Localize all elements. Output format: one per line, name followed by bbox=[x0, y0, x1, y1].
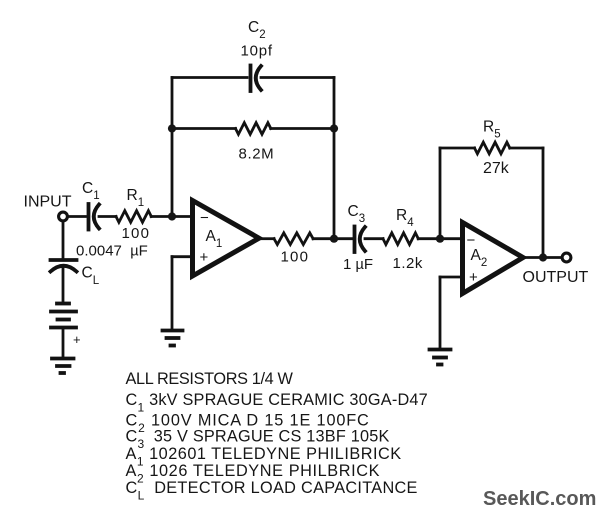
capacitor C2 bbox=[251, 66, 262, 92]
svg-text:+: + bbox=[469, 269, 478, 286]
svg-text:R1: R1 bbox=[127, 187, 145, 209]
op-amp A2 bbox=[463, 223, 524, 294]
resistor R4 bbox=[383, 233, 418, 245]
capacitor C1 bbox=[89, 204, 100, 230]
wire C1 to R1 bbox=[99, 215, 116, 218]
node A1 output bbox=[330, 235, 338, 243]
wire feedback left vertical bbox=[171, 78, 174, 217]
op-amp A1 bbox=[193, 201, 260, 277]
svg-text:C3: C3 bbox=[348, 203, 366, 225]
terminal INPUT bbox=[59, 212, 68, 221]
wire R5 row right bbox=[510, 147, 543, 150]
wire R5 feedback right vertical bbox=[542, 148, 545, 258]
svg-text:27k: 27k bbox=[483, 160, 510, 177]
svg-text:100: 100 bbox=[281, 249, 310, 266]
node A2 minus bbox=[436, 235, 444, 243]
wire C2 to top right corner bbox=[261, 76, 334, 79]
svg-text:1 µF: 1 µF bbox=[343, 256, 373, 273]
resistor R1 bbox=[116, 211, 151, 223]
svg-text:−: − bbox=[200, 210, 209, 227]
node input junction bbox=[168, 212, 176, 220]
resistor 8.2M bbox=[236, 123, 271, 135]
svg-text:R4: R4 bbox=[396, 207, 414, 229]
svg-text:INPUT: INPUT bbox=[24, 194, 72, 211]
wire A2 plus to ground bbox=[439, 277, 442, 348]
wire 8.2M row right bbox=[271, 127, 334, 130]
wire R4 to A2 minus input bbox=[418, 237, 461, 240]
wire C3 to R4 bbox=[365, 237, 383, 240]
wire top left to C2 bbox=[172, 76, 247, 79]
wire R5 feedback left vertical bbox=[439, 148, 442, 239]
svg-text:8.2M: 8.2M bbox=[239, 146, 275, 163]
resistor R5 bbox=[475, 142, 510, 154]
svg-text:C2: C2 bbox=[248, 19, 266, 41]
svg-text:+: + bbox=[200, 249, 209, 266]
ground (A2 plus) bbox=[430, 350, 451, 365]
wire R5 row left bbox=[440, 147, 475, 150]
svg-text:R5: R5 bbox=[483, 119, 501, 141]
ground (A1 plus) bbox=[163, 331, 183, 346]
svg-text:SeekIC.com: SeekIC.com bbox=[483, 488, 596, 510]
svg-text:CL DETECTOR LOAD CAPACITANCE: CL DETECTOR LOAD CAPACITANCE bbox=[126, 479, 418, 503]
wire CL to battery bbox=[62, 267, 65, 302]
svg-text:OUTPUT: OUTPUT bbox=[523, 269, 589, 286]
resistor 100 (A1 output) bbox=[274, 233, 313, 245]
node A2 output bbox=[539, 253, 547, 261]
wire feedback right vertical bbox=[333, 78, 336, 240]
battery B1 bbox=[51, 304, 76, 328]
svg-text:+: + bbox=[73, 332, 81, 347]
ground (battery) bbox=[52, 359, 74, 374]
node 8.2M right bbox=[330, 124, 338, 132]
wire A2 output bbox=[524, 256, 561, 259]
wire A1 plus to ground bbox=[171, 257, 174, 329]
svg-text:A2: A2 bbox=[471, 247, 488, 269]
svg-text:A1: A1 bbox=[206, 228, 223, 250]
wire A1 output to resistor bbox=[261, 237, 274, 240]
wire R1 to node at minus input of A1 bbox=[151, 215, 191, 218]
svg-text:−: − bbox=[467, 232, 476, 249]
svg-text:0.0047 µF: 0.0047 µF bbox=[76, 243, 148, 260]
svg-text:C1: C1 bbox=[82, 180, 100, 202]
wire A2 plus input bbox=[440, 276, 461, 279]
capacitor C3 bbox=[355, 227, 366, 253]
terminal OUTPUT bbox=[562, 253, 571, 262]
svg-text:CL: CL bbox=[82, 265, 100, 288]
svg-text:10pf: 10pf bbox=[241, 43, 273, 60]
wire input down to CL bbox=[62, 223, 65, 260]
svg-text:1.2k: 1.2k bbox=[393, 255, 423, 272]
node 8.2M left bbox=[168, 124, 176, 132]
wire resistor to C3 node bbox=[313, 237, 352, 240]
svg-text:ALL RESISTORS 1/4 W: ALL RESISTORS 1/4 W bbox=[126, 370, 294, 388]
wire 8.2M row left bbox=[172, 127, 236, 130]
wire input terminal to C1 bbox=[68, 215, 86, 218]
wire battery to ground bbox=[62, 329, 65, 357]
capacitor CL bbox=[51, 260, 77, 272]
wire A1 plus input bbox=[172, 255, 191, 258]
svg-text:100: 100 bbox=[122, 225, 151, 242]
